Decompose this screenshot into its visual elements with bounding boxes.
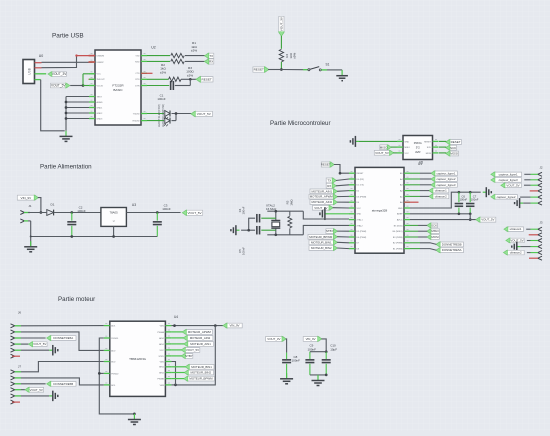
label capteur_ligne2 (mcu) [410,177,457,182]
svg-text:VOUT_3V: VOUT_3V [52,72,67,76]
svg-text:100nF: 100nF [471,198,479,202]
label VIN_9V (motor) [223,323,242,328]
svg-text:RTS: RTS [135,79,140,81]
svg-text:±5%: ±5% [187,73,193,77]
svg-text:78A05: 78A05 [110,211,119,215]
label VOUT_5V (prog) [374,150,393,155]
pin stubs U0 [35,63,47,80]
gnd bus FT232 [65,97,95,131]
svg-text:U4: U4 [174,315,178,319]
label DONNETRE5B (J7) [15,381,76,386]
resistor R2 [147,59,205,74]
junction reset node [189,78,192,81]
wire USB shield to gnd [41,80,65,131]
no-connect 3V3OUT [89,78,96,80]
svg-text:±5%: ±5% [191,49,197,53]
capacitor C9 [305,344,316,375]
junction C2 top [70,211,73,214]
label MISO (mcu) [410,229,439,234]
svg-text:TX: TX [327,179,331,183]
no-connect J3 pin2 [529,234,538,236]
title Partie Microcontroleur [270,120,331,127]
label MOTEUR_APWM (u4) [171,329,212,334]
wire VM2 tie [171,362,175,385]
svg-text:MOTEUR_BIN1: MOTEUR_BIN1 [191,365,212,369]
wire xtal top rail [267,211,349,219]
svg-text:DONNETRE5A: DONNETRE5A [53,336,73,340]
svg-text:GND1: GND1 [97,107,104,109]
label RESET (prog) [439,139,462,144]
svg-text:VOUT_3V: VOUT_3V [267,337,280,341]
ground (prog) [350,136,397,147]
label VOUT_3V (caps) [266,336,287,341]
svg-text:GND2: GND2 [97,113,104,115]
label capteur_ligne3 (mcu) [410,182,457,187]
no-connect J2 pin4 [530,190,538,192]
wire USB D+ to chip [42,61,96,63]
title Partie Alimentation [40,164,92,171]
ground (USB) [60,131,73,142]
label MOSI (mcu) [410,235,439,240]
svg-text:XTAL2: XTAL2 [357,224,364,227]
label MOTEUR_AIN2 (u4) [171,335,213,340]
svg-text:±5%: ±5% [160,70,166,74]
wire caps to gnd [241,218,255,231]
svg-text:Partie Alimentation: Partie Alimentation [40,164,92,171]
svg-text:DONNETRE5A: DONNETRE5A [442,248,462,252]
svg-text:100nF: 100nF [241,206,245,214]
IC U1 atmega328 [349,162,422,253]
svg-text:ultrason1: ultrason1 [435,189,447,193]
svg-text:VIN_9V: VIN_9V [21,196,33,200]
label capteur_ligne1 (J2) [491,172,538,177]
title Partie moteur [58,296,95,303]
IC U4 TB6612FNG [104,315,178,397]
svg-text:U2: U2 [151,46,156,50]
label MOTEUR_BIN2 (u4) [171,370,213,375]
label VOUT_5V (alim) [182,210,202,216]
svg-text:VCC: VCC [405,153,410,155]
ground (c9c10) [312,375,325,386]
svg-text:SCK: SCK [450,146,456,150]
label RESET (switch) [253,67,269,73]
svg-text:B4 (MISO): B4 (MISO) [393,231,403,233]
svg-text:MOTEUR_BPWM: MOTEUR_BPWM [309,235,333,239]
svg-text:VOUT_5V: VOUT_5V [51,84,66,88]
junction xtal dots [274,210,277,236]
svg-text:capteur_ligne3: capteur_ligne3 [499,178,518,182]
svg-text:TX: TX [209,54,213,58]
wire miso-prog [391,146,397,148]
ground (J7) [15,391,58,402]
capacitor C7 [466,192,479,214]
ground (switch) [336,76,348,81]
svg-text:VOUT_5V: VOUT_5V [506,183,519,187]
wire reset to switch [268,69,308,71]
svg-text:MOTEUR_BPWM: MOTEUR_BPWM [189,377,213,381]
wire J1 to D1 [28,212,46,214]
svg-text:capteur_ligne1: capteur_ligne1 [437,171,456,175]
wire xtal bottom rail [267,225,349,234]
wire vin down [38,198,41,213]
svg-text:U1: U1 [418,162,422,166]
connector J7 [11,365,22,405]
no-connect CTS [141,72,153,74]
label TX [204,53,213,59]
svg-text:XTAL1: XTAL1 [357,219,364,222]
svg-text:capteur_ligne1: capteur_ligne1 [499,172,518,176]
label capteur_ligne1 (mcu) [410,171,457,176]
connector U0 (USB) [23,54,43,84]
label VOUT_5V (USB) [51,83,70,88]
wire pgnd bus [98,338,136,415]
svg-text:STBY: STBY [158,356,164,358]
svg-text:100nF: 100nF [157,97,165,101]
regulator U3 [101,203,136,226]
svg-text:J1: J1 [28,204,32,208]
svg-text:100nF: 100nF [162,207,171,211]
diode LED1 TXLED [147,104,191,127]
wire vout-prog [393,152,397,154]
label MOTEUR_BIN1 [309,240,349,245]
ground (alim) [24,237,37,252]
svg-text:B1 (PWM): B1 (PWM) [393,249,403,251]
wire red to USBDM pin [77,55,96,57]
wire VCC/VCCIO tie [83,74,95,86]
junction (red) node USBDM [75,54,77,56]
label VOUT_5V (J3) [506,238,538,243]
svg-text:Partie Microcontroleur: Partie Microcontroleur [270,120,331,127]
junction reset net [280,68,283,71]
svg-text:MOTEUR_AIN1: MOTEUR_AIN1 [190,342,211,346]
svg-text:Partie moteur: Partie moteur [58,296,95,303]
ground (xtal) [231,225,240,235]
svg-text:S1: S1 [326,62,330,66]
switch S1 [308,62,330,71]
svg-text:100nF: 100nF [308,347,317,351]
svg-text:USBDM: USBDM [97,56,105,58]
svg-text:D5 (PWM): D5 (PWM) [357,231,367,233]
svg-text:B3 (PWM): B3 (PWM) [393,237,403,239]
wire avcc [410,219,476,221]
svg-text:Partie USB: Partie USB [52,33,84,40]
label VOUT_5V (avcc) [476,217,496,222]
svg-text:U: U [113,220,115,223]
wire J6-1 to AO1 [15,325,104,327]
capacitor C3 [153,204,171,237]
svg-text:CTS: CTS [135,73,140,75]
wire VOUT_5V to VCCIO [70,85,83,87]
resistor R1 [147,41,205,58]
svg-text:D0 (RX): D0 (RX) [357,179,365,181]
label DONNETRE5A (mcu) [410,248,463,253]
label VOUT_3V (vertical) [279,16,285,36]
svg-text:BASIC: BASIC [113,88,123,92]
svg-text:PROG: PROG [414,141,422,145]
capacitor C1 [147,79,190,101]
wire mcu gnd right [410,192,481,208]
connector U5 PROG [397,136,439,165]
no-connect J3 pin6 [529,257,538,259]
label MISO (prog) [380,145,392,150]
ground (motor) [128,414,141,425]
junction C3 top [156,211,159,214]
wire cap rails [310,352,328,377]
svg-text:GND3: GND3 [97,118,104,120]
svg-text:J7: J7 [18,365,22,369]
svg-text:VOUT_5V: VOUT_5V [30,388,43,392]
resistor R5 [286,199,294,235]
svg-text:MISO: MISO [431,229,439,233]
label MOTEUR_APWM [309,194,349,199]
wire aref [410,212,472,221]
label ultrason1 (J3) [504,227,538,232]
capacitor C6 [455,192,468,214]
capacitor C10 [322,344,338,375]
diode LED2 RXLED [147,104,176,127]
red pin stubs USBDM USBDP [89,56,96,62]
svg-text:MOTEUR_AIN1: MOTEUR_AIN1 [312,189,333,193]
connector J2 [538,166,543,206]
svg-text:B2 (PWM): B2 (PWM) [393,243,403,245]
label capteur_ligne3 (J2) [491,178,538,183]
svg-text:J3: J3 [539,221,542,225]
svg-text:RESET: RESET [451,140,461,144]
wire reg gnd [113,226,115,236]
wire J6-2 to AO2 [15,332,104,351]
svg-text:VOUT_5V: VOUT_5V [481,218,494,222]
wire gnd rail (alim) [28,221,157,238]
ground (J3) [512,242,538,252]
svg-text:ultrason2: ultrason2 [435,194,447,198]
svg-text:capteur_ligne2: capteur_ligne2 [437,177,456,181]
wire reg out [126,212,180,214]
svg-text:RX: RX [327,184,331,188]
svg-text:VIN_9V: VIN_9V [230,324,240,328]
svg-text:ultrason1: ultrason1 [510,227,522,231]
label VOUT_5V (led) [191,111,213,117]
svg-text:VCC: VCC [97,74,102,76]
svg-text:RESET: RESET [321,163,331,167]
svg-text:VOUT_5V: VOUT_5V [187,211,202,215]
wire switch to gnd [321,70,342,75]
resistor R4 [279,36,296,70]
wire J7-1 to BO2 [15,362,104,372]
svg-text:VOUT_5V: VOUT_5V [197,112,212,116]
svg-text:VOUT_5V: VOUT_5V [33,342,46,346]
label VOUT_5V (J6) [15,342,47,347]
wire USB D- to chip [42,56,77,68]
svg-text:TXD: TXD [135,56,140,58]
label DONNETRE5A (J6) [15,336,76,341]
title Partie USB [52,33,84,40]
junction VCCIO node [82,84,85,87]
junction vin [40,211,43,214]
IC U2 FT232R [89,46,156,126]
svg-text:VCC: VCC [357,208,362,210]
label MOTEUR_BIN2 [309,246,349,251]
svg-text:SCK: SCK [427,147,432,149]
svg-text:D1: D1 [51,202,55,206]
svg-text:100nF: 100nF [460,198,468,202]
svg-text:RXD: RXD [135,61,140,63]
svg-text:MOTEUR_BIN1: MOTEUR_BIN1 [311,240,332,244]
svg-text:PGND1: PGND1 [111,338,119,340]
svg-text:±5%: ±5% [293,52,297,58]
label STBY (u4) [171,353,192,358]
svg-text:J2: J2 [539,166,542,170]
label MOTEUR_AIN2 [310,200,349,205]
svg-text:100nF: 100nF [241,247,245,255]
ground (mcu gnd pin) [320,208,349,221]
wire J7-2 to BO1 [15,378,104,385]
svg-text:U0: U0 [39,54,44,58]
wire vin to caps [321,339,327,353]
svg-text:3*2: 3*2 [416,145,421,149]
label MOTEUR_BPWM [308,234,349,239]
svg-text:MOSI: MOSI [450,152,458,156]
label VOUT_3V (USB) [48,72,67,77]
svg-text:USBDP: USBDP [97,62,105,64]
svg-text:1MΩ: 1MΩ [289,199,293,206]
label TX (mcu) [326,178,349,183]
svg-text:VOUT_5V: VOUT_5V [375,151,389,155]
svg-text:VCCIO: VCCIO [97,85,104,87]
svg-text:PWMA: PWMA [157,331,164,334]
svg-text:DONNETRE5B: DONNETRE5B [442,242,462,246]
wire VM bus [171,326,215,387]
svg-text:AVCC: AVCC [397,219,403,222]
label MOTEUR_BPWM (u4) [171,376,214,381]
label capteur_ligne2 (J2) [491,194,538,199]
label MOSI (prog) [439,151,459,156]
svg-text:10µF: 10µF [330,347,337,351]
svg-text:capteur_ligne3: capteur_ligne3 [437,183,456,187]
svg-text:D1 (TX): D1 (TX) [357,185,365,187]
label SCK (prog) [439,145,457,150]
svg-text:TB6612FNG: TB6612FNG [129,357,147,361]
svg-text:FT232R: FT232R [112,83,124,87]
connector J3 [538,221,543,261]
svg-text:100nF: 100nF [77,209,86,213]
svg-text:MISO: MISO [405,147,411,149]
label ultrason2 (J3) [503,250,538,255]
svg-text:AGND: AGND [97,101,104,104]
svg-text:MOTEUR_BIN2: MOTEUR_BIN2 [311,246,332,250]
svg-text:RESET: RESET [201,77,211,81]
no-connect J7-6 [12,401,20,403]
svg-text:RESET: RESET [357,173,365,175]
svg-text:LED2 RXLED(PIN2): LED2 RXLED(PIN2) [161,104,165,127]
svg-text:ultrason2: ultrason2 [510,251,522,255]
svg-text:MOTEUR_BIN2: MOTEUR_BIN2 [191,371,212,375]
label VIN_9V (alim) [17,195,38,200]
svg-text:atmega328: atmega328 [372,208,388,212]
svg-text:VOUT_3V: VOUT_3V [280,16,284,31]
connector J1 [20,204,32,223]
svg-text:PWMB: PWMB [157,379,164,381]
ground (J2) [515,198,538,208]
label RESET (USB) [196,76,213,82]
junction c6 c7 top [458,191,472,194]
svg-text:MOTEUR_AIN2: MOTEUR_AIN2 [190,336,211,340]
svg-text:RXLED: RXLED [133,121,140,123]
svg-text:PGND2: PGND2 [111,373,119,375]
svg-text:SCK: SCK [431,223,437,227]
svg-text:DONNETRE5B: DONNETRE5B [53,382,73,386]
label ultrason1 (mcu) [410,188,449,193]
capacitor C2 [67,205,86,236]
svg-text:B5 (SCK): B5 (SCK) [394,225,403,227]
label MOTEUR_AIN1 [310,189,349,194]
wire D1 to reg [54,212,101,214]
svg-text:GND: GND [405,141,410,143]
capacitor C8 [282,339,300,379]
svg-text:AVR: AVR [415,150,420,154]
label DONNETRE5B (mcu) [410,242,463,247]
label RX [204,59,213,64]
svg-text:RX: RX [209,60,213,64]
svg-text:GND: GND [398,208,403,210]
svg-text:TXLED: TXLED [133,113,140,115]
capacitor C4 [238,206,276,222]
svg-text:MOTEUR_APWM: MOTEUR_APWM [188,330,212,334]
ground (c8) [280,373,293,384]
wire VM1 to VIN [171,324,223,327]
label VOUT_3V (mcu) [313,205,350,210]
wire reset-mcu [334,165,349,175]
capacitor C5 [238,226,276,255]
svg-text:TEST: TEST [97,96,103,98]
no-connect J6-6 [12,355,20,357]
label VIN_9V (caps) [303,336,322,341]
label STBY (mcu) [326,229,349,234]
svg-text:LED1 TXLED(PIN3): LED1 TXLED(PIN3) [157,104,161,127]
svg-text:J6: J6 [18,311,22,315]
label ultrason2 (mcu) [410,194,449,199]
svg-text:AREF: AREF [397,213,403,216]
junction led node [175,112,178,115]
label SCK (mcu) [410,223,437,228]
resistor R3 [147,66,197,82]
svg-text:VOUT_5V: VOUT_5V [186,348,199,352]
svg-text:STBY: STBY [185,354,193,358]
label RESET (mcu) [321,162,335,167]
ground (J6) [15,345,58,356]
label VOUT_5V (u4) [171,347,199,352]
label RX (mcu) [326,183,349,188]
svg-text:DTR: DTR [135,85,140,87]
ground (c6c7) [483,187,492,197]
svg-text:3V3OUT: 3V3OUT [97,79,106,81]
no-connect A0 [404,201,419,203]
svg-text:GND: GND [357,214,362,216]
label MOTEUR_BIN1 (u4) [171,364,214,369]
svg-text:MOTEUR_AIN2: MOTEUR_AIN2 [312,200,333,204]
svg-text:VCC: VCC [160,350,165,352]
svg-text:D3 (PWM): D3 (PWM) [357,196,367,198]
svg-text:MOSI: MOSI [426,153,432,155]
svg-text:U3: U3 [132,203,136,207]
svg-text:D6 (PWM): D6 (PWM) [357,237,367,239]
label VOUT_5V (J2) [501,183,538,188]
svg-text:capteur_ligne2: capteur_ligne2 [497,195,516,199]
label MOTEUR_AIN1 (u4) [171,341,213,346]
svg-text:VIN_9V: VIN_9V [306,337,316,341]
connector J6 [11,311,22,359]
label VOUT_5V (J7) [15,387,44,392]
crystal X1 [266,204,280,235]
